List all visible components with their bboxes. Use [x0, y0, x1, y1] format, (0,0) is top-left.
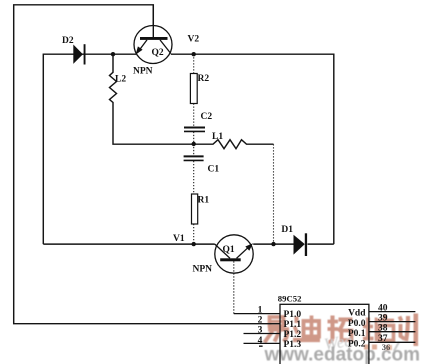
- svg-text:L2: L2: [115, 75, 126, 85]
- svg-text:38: 38: [378, 323, 388, 333]
- svg-text:P0.1: P0.1: [348, 329, 366, 339]
- svg-text:89C52: 89C52: [278, 293, 302, 303]
- svg-text:Q2: Q2: [152, 48, 164, 58]
- svg-text:D2: D2: [62, 36, 74, 46]
- svg-text:P0.2: P0.2: [348, 340, 366, 350]
- svg-text:V1: V1: [173, 234, 185, 244]
- svg-text:V2: V2: [188, 35, 200, 45]
- svg-text:Vdd: Vdd: [348, 309, 366, 319]
- svg-text:P0.0: P0.0: [348, 319, 366, 329]
- svg-text:P1.0: P1.0: [284, 310, 302, 320]
- svg-text:40: 40: [378, 304, 388, 314]
- svg-text:4: 4: [258, 336, 263, 346]
- svg-text:Q1: Q1: [223, 245, 235, 255]
- svg-text:P1.3: P1.3: [284, 340, 302, 350]
- svg-text:39: 39: [378, 313, 388, 323]
- svg-text:C1: C1: [208, 165, 220, 175]
- svg-text:L1: L1: [212, 132, 223, 142]
- svg-text:NPN: NPN: [193, 265, 213, 275]
- svg-text:36: 36: [382, 342, 391, 352]
- svg-text:2: 2: [258, 315, 263, 325]
- svg-text:R2: R2: [198, 74, 210, 84]
- svg-text:P1.1: P1.1: [284, 320, 302, 330]
- svg-text:1: 1: [258, 306, 263, 316]
- svg-text:D1: D1: [281, 225, 293, 235]
- svg-text:NPN: NPN: [133, 67, 153, 77]
- svg-text:C2: C2: [201, 112, 213, 122]
- svg-text:P1.2: P1.2: [284, 330, 302, 340]
- svg-text:3: 3: [258, 326, 263, 336]
- svg-text:R1: R1: [198, 196, 210, 206]
